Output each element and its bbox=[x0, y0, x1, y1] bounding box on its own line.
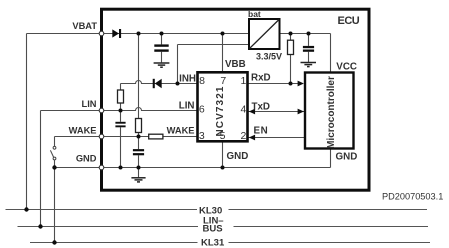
svg-text:NCV7321: NCV7321 bbox=[215, 85, 226, 136]
svg-text:WAKE: WAKE bbox=[167, 125, 195, 135]
svg-text:7: 7 bbox=[220, 75, 226, 87]
svg-text:PD20070503.1: PD20070503.1 bbox=[382, 191, 443, 201]
svg-text:INH: INH bbox=[179, 74, 196, 85]
svg-text:bat: bat bbox=[248, 9, 261, 19]
svg-text:WAKE: WAKE bbox=[69, 125, 97, 135]
svg-text:1: 1 bbox=[240, 75, 246, 87]
svg-text:8: 8 bbox=[199, 75, 205, 87]
svg-text:LIN: LIN bbox=[82, 99, 97, 109]
svg-text:3.3/5V: 3.3/5V bbox=[256, 52, 282, 62]
svg-text:BUS: BUS bbox=[203, 224, 223, 235]
svg-text:ECU: ECU bbox=[338, 15, 360, 27]
svg-text:3: 3 bbox=[199, 130, 205, 142]
svg-text:EN: EN bbox=[254, 125, 269, 136]
svg-text:GND: GND bbox=[76, 153, 97, 163]
svg-text:LIN: LIN bbox=[179, 101, 195, 112]
svg-text:6: 6 bbox=[199, 103, 205, 115]
svg-text:VBAT: VBAT bbox=[72, 21, 97, 31]
svg-text:Microcontroller: Microcontroller bbox=[326, 76, 337, 149]
svg-text:GND: GND bbox=[227, 151, 249, 162]
svg-text:KL31: KL31 bbox=[201, 237, 225, 248]
svg-text:2: 2 bbox=[240, 130, 246, 142]
svg-text:4: 4 bbox=[240, 103, 246, 115]
svg-text:RxD: RxD bbox=[251, 73, 271, 84]
svg-text:GND: GND bbox=[336, 152, 358, 163]
svg-text:VCC: VCC bbox=[336, 62, 357, 73]
svg-text:TxD: TxD bbox=[252, 102, 271, 113]
svg-text:VBB: VBB bbox=[225, 59, 246, 70]
